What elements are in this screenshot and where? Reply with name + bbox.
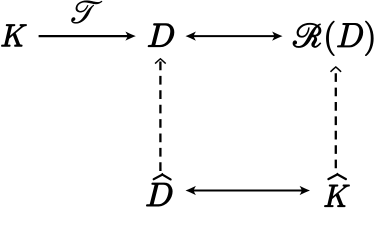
label script T bbox=[71, 1, 102, 24]
node D bbox=[148, 24, 174, 47]
arrow D to R(D) (double-headed) bbox=[186, 31, 283, 40]
dashed arrow Khat up to R(D) bbox=[331, 67, 342, 169]
dashed arrow Dhat up to D bbox=[155, 59, 166, 172]
node K bbox=[1, 25, 26, 47]
arrow K to D (solid) bbox=[39, 31, 136, 40]
node Dhat: hat bbox=[154, 174, 171, 180]
arrow Dhat to Khat (double-headed) bbox=[186, 186, 311, 195]
node Khat: hat bbox=[328, 174, 346, 180]
node Khat: K bbox=[324, 185, 349, 207]
node R(D) bbox=[293, 21, 373, 56]
node Dhat: D bbox=[146, 183, 172, 206]
